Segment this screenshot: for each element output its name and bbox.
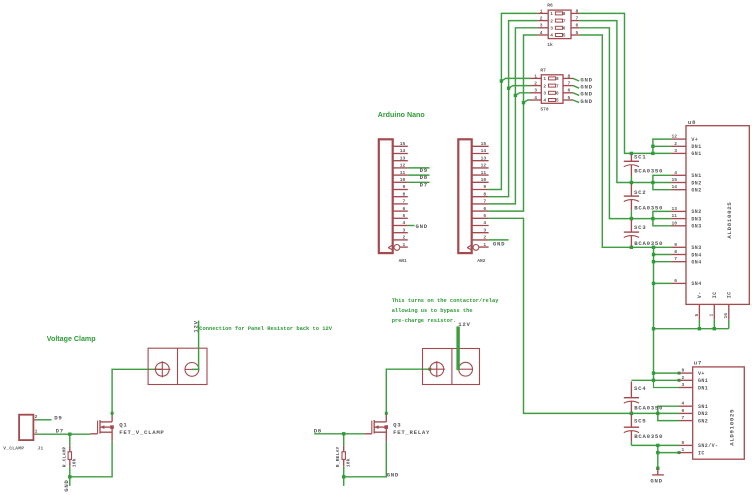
junction u7 DN2 feed [656,412,659,415]
svg-text:2: 2 [534,81,537,87]
svg-text:1: 1 [550,11,553,17]
wire net D8 to Q3 gate [314,433,365,435]
svg-text:SC3: SC3 [634,224,646,231]
wire Q1 drain to clamp terminal [112,369,162,413]
svg-text:GND: GND [416,223,428,230]
svg-text:V_CLAMP: V_CLAMP [3,445,24,451]
svg-text:7: 7 [403,199,406,205]
svg-text:BCA0350: BCA0350 [634,240,663,247]
svg-text:V+: V+ [698,371,705,377]
svg-text:7: 7 [682,415,685,421]
terminal block X1 clamp [148,348,207,384]
wire chain vertical u8 SN3 down to u7 V+/GN1/DN1 [653,247,655,380]
wire u8 DN1 row [653,145,671,147]
junction u8 DN1 branch [651,145,654,148]
svg-text:3: 3 [534,88,537,94]
svg-text:8: 8 [563,11,566,17]
svg-text:3: 3 [403,227,406,233]
svg-text:4: 4 [534,95,537,101]
wire Q3 drain to relay terminal [386,369,430,413]
svg-text:8: 8 [403,191,406,197]
wire GND from AN1 pin 4 [408,225,415,227]
wire GND stub Q1 [69,477,71,486]
svg-text:16: 16 [723,313,729,319]
svg-text:GN1: GN1 [698,378,708,384]
junction SC1 top [630,152,633,155]
svg-text:u7: u7 [694,359,702,366]
svg-text:10: 10 [481,177,487,183]
svg-text:15: 15 [481,141,487,147]
svg-text:Voltage Clamp: Voltage Clamp [47,335,96,343]
svg-text:1: 1 [403,242,406,248]
svg-text:DN1: DN1 [698,385,708,391]
wire net AN2.7-R7.3-R6.3 [489,28,538,204]
svg-text:12: 12 [481,163,487,169]
svg-text:7: 7 [568,81,571,87]
svg-text:8: 8 [682,368,685,374]
svg-text:GN3: GN3 [691,224,701,230]
svg-text:5: 5 [694,314,700,317]
wire u7 SN2/V- row from SC5 bottom [631,444,679,446]
svg-text:ALD810025: ALD810025 [726,202,733,239]
svg-text:5: 5 [682,440,685,446]
svg-text:1: 1 [543,76,546,82]
svg-text:GND: GND [493,241,505,248]
junction u8 V- drop [698,327,701,330]
junction SC4 bottom / SC5 top [630,412,633,415]
wire GND squiggle R7 pin 7 [573,86,579,89]
svg-text:7: 7 [563,18,566,24]
junction u7 IC row [656,451,659,454]
wire net AN2.6-R7.4-R6.4 [489,35,538,211]
svg-text:R_CLAMP: R_CLAMP [61,446,67,467]
svg-text:DN1: DN1 [691,144,701,150]
svg-text:GND: GND [580,98,592,105]
svg-text:10: 10 [400,177,406,183]
svg-text:11: 11 [671,213,677,219]
svg-text:15: 15 [400,141,406,147]
resistor R_CLAMP 10k [68,434,71,477]
wire GND squiggle R7 pin 5 [573,100,579,103]
junction SC2 bottom / SC3 top [630,217,633,220]
wire net AN2.8-R7.2-R6.2 [489,21,538,197]
wire branch to R7 pin 2 [509,86,531,89]
svg-text:IC: IC [712,291,718,298]
svg-text:1: 1 [534,73,537,79]
junction wire end at relay terminal [428,368,431,371]
svg-text:5: 5 [576,30,579,36]
svg-text:6: 6 [403,206,406,212]
junction chain at u7 GN1 [652,379,655,382]
svg-text:Q3: Q3 [393,422,401,429]
resistor network R7 [531,73,574,103]
svg-text:GND: GND [580,91,592,98]
transistor Q1 FET_V_CLAMP [90,413,113,441]
junction at R7 pin 2 branch [507,87,510,90]
svg-text:R7: R7 [540,67,546,73]
svg-text:allowing us to bypass the: allowing us to bypass the [392,308,473,314]
wire net D9 from AN1 pin 12 [408,167,430,169]
svg-text:2: 2 [674,141,677,147]
wire net R6.7 to u8 group2 (SN1/DN2/GN2) [580,21,672,183]
junction D7 at R_CLAMP [68,433,71,436]
junction u8 SN4 [652,282,655,285]
wire rail to u8 bottom pins V-/1/16 [654,328,729,330]
svg-text:7: 7 [674,256,677,262]
connector AN1 (Arduino Nano header JP1) [379,139,408,253]
svg-text:SN3: SN3 [691,245,701,251]
junction u7 SN2/V- branch [656,444,659,447]
svg-text:9: 9 [483,184,486,190]
junction chain at bottom rail [652,327,655,330]
svg-text:3: 3 [540,23,543,29]
junction wire end at u7 V+ pin [678,372,681,375]
svg-text:V+: V+ [691,137,698,143]
svg-text:11: 11 [400,170,406,176]
svg-text:DN2: DN2 [691,180,701,186]
svg-text:2: 2 [483,235,486,241]
svg-text:DN4: DN4 [691,252,701,258]
svg-text:SN2/V-: SN2/V- [698,443,718,449]
svg-text:D9: D9 [420,167,428,174]
svg-text:10k: 10k [72,458,78,467]
svg-text:V-: V- [697,291,703,298]
svg-text:SN4: SN4 [691,281,701,287]
svg-text:2: 2 [403,235,406,241]
wire u7 GN1 row from SC4 top [631,379,679,381]
svg-text:GND: GND [387,471,399,478]
svg-text:GND: GND [650,477,662,484]
svg-text:2: 2 [543,83,546,89]
svg-text:13: 13 [481,155,487,161]
wire branch u7 SN1/GN2 [658,406,679,420]
svg-text:GN2: GN2 [691,188,701,194]
IC u7 ALD910025 [679,367,744,459]
wire GND squiggle R7 pin 8 [573,78,579,81]
svg-text:1: 1 [709,314,715,317]
wire net D8 from AN1 pin 11 [408,174,430,176]
resistor R_RELAY 10k [342,434,345,477]
junction wire end at u7 GN1 pin [678,379,681,382]
svg-text:4: 4 [674,170,677,176]
junction at R7 pin 4 branch [522,101,525,104]
capacitor SC1 [624,155,639,183]
svg-text:5: 5 [563,33,566,39]
svg-text:8: 8 [483,191,486,197]
svg-text:GN4: GN4 [691,260,701,266]
ground GND below u7 [652,467,664,475]
svg-text:2: 2 [682,375,685,381]
svg-text:GND: GND [580,84,592,91]
svg-text:7: 7 [483,199,486,205]
svg-text:4: 4 [682,401,685,407]
svg-text:FET_V_CLAMP: FET_V_CLAMP [119,429,164,436]
wire branch to R7 pin 3 [515,93,530,96]
wire 12V into clamp terminal [192,321,199,370]
wire net D7 from J1 pin 1 to Q1 gate [37,433,91,435]
svg-text:7: 7 [576,16,579,22]
transistor Q3 FET_RELAY [365,413,388,441]
wire branch u8 V+ and DN1 [653,139,671,153]
wire net R6.8 to u8 group1 (V+/DN1/GN1) [580,13,672,153]
svg-text:8: 8 [576,8,579,14]
junction u8 DN4 [652,253,655,256]
svg-text:BCA0350: BCA0350 [634,205,663,212]
svg-text:ALD910025: ALD910025 [729,409,736,446]
wire GND stub Q3 [343,477,345,486]
svg-text:12: 12 [671,134,677,140]
svg-text:1k: 1k [547,42,553,48]
svg-text:3: 3 [543,91,546,97]
svg-text:This turns on the contactor/re: This turns on the contactor/relay [392,298,500,304]
junction SC3 bottom [630,246,633,249]
svg-text:1: 1 [682,447,685,453]
svg-text:12: 12 [400,163,406,169]
svg-text:BCA0350: BCA0350 [634,433,663,440]
svg-text:IC: IC [698,450,705,456]
svg-text:570: 570 [540,107,549,113]
svg-text:6: 6 [568,88,571,94]
svg-text:3: 3 [682,382,685,388]
svg-text:SN2: SN2 [691,209,701,215]
svg-text:5: 5 [403,213,406,219]
wire u7 V+ row [654,372,680,374]
svg-text:SC4: SC4 [634,385,646,392]
svg-text:D8: D8 [420,174,428,181]
svg-text:D7: D7 [56,427,64,434]
junction u8 GN4 [652,260,655,263]
svg-text:3: 3 [674,148,677,154]
svg-text:D7: D7 [420,181,428,188]
junction u8 DN2 feed [651,181,654,184]
junction u8 pin1 drop [713,327,716,330]
svg-text:pre-charge resistor.: pre-charge resistor. [392,318,457,324]
junction Q1 drain [111,412,114,415]
svg-text:14: 14 [400,148,406,154]
svg-text:GN2: GN2 [698,418,708,424]
svg-text:SC1: SC1 [634,154,646,161]
svg-text:6: 6 [674,278,677,284]
connector J1 V_CLAMP [19,415,36,440]
svg-text:6: 6 [576,23,579,29]
svg-text:DN3: DN3 [691,216,701,222]
wire net AN2.5 to u7 DN2 / SC4-SC5 tap [489,218,679,413]
wire Q1 source to GND node [70,442,112,477]
connector AN2 (Arduino Nano header JP2) [458,139,488,253]
IC u8 ALD810025 [671,126,749,320]
svg-text:Connection for Panel Resistor: Connection for Panel Resistor back to 12… [199,326,332,332]
svg-text:4: 4 [550,33,553,39]
svg-text:D9: D9 [54,414,62,421]
svg-text:FET_RELAY: FET_RELAY [393,429,430,436]
svg-text:2: 2 [550,18,553,24]
svg-text:2: 2 [540,16,543,22]
svg-text:7: 7 [556,83,559,89]
wire Q3 source to GND node [344,442,387,477]
svg-text:5: 5 [556,98,559,104]
wire 12V thick into relay terminal [456,326,459,370]
svg-text:3: 3 [483,227,486,233]
svg-text:Q1: Q1 [119,422,127,429]
svg-text:12V: 12V [458,321,470,328]
svg-text:SN1: SN1 [691,173,701,179]
svg-text:Arduino Nano: Arduino Nano [378,111,426,119]
capacitor SC2 [624,184,639,219]
wire drop to u7 IC pin1 and GND [657,445,659,468]
junction D8 at R_RELAY [342,432,345,435]
capacitor SC3 [624,220,639,248]
svg-text:4: 4 [540,30,543,36]
svg-text:10: 10 [671,220,677,226]
wire u8 GN4 row [654,261,672,263]
svg-text:4: 4 [543,98,546,104]
svg-text:DN2: DN2 [698,411,708,417]
wire GND from AN2 pin 2 [489,239,509,241]
svg-text:6: 6 [556,91,559,97]
junction at R7 pin 3 branch [514,94,517,97]
svg-text:GN1: GN1 [691,151,701,157]
svg-text:5: 5 [568,95,571,101]
svg-text:J1: J1 [38,445,44,451]
junction u8 DN3 feed [651,217,654,220]
svg-text:R_RELAY: R_RELAY [335,446,341,467]
wire u8 pin16 IC drop [728,320,730,329]
svg-text:SC5: SC5 [634,417,646,424]
svg-text:8: 8 [674,249,677,255]
capacitor SC5 [624,415,639,446]
svg-text:6: 6 [483,206,486,212]
svg-text:12V: 12V [193,320,200,332]
svg-text:11: 11 [481,170,487,176]
svg-text:SC2: SC2 [634,189,646,196]
svg-text:8: 8 [568,73,571,79]
svg-text:AN1: AN1 [399,258,407,264]
svg-text:8: 8 [556,76,559,82]
svg-text:15: 15 [671,177,677,183]
wire branch u8 SN1 [653,175,671,189]
wire net AN2.9-R7.1-R6.1 [489,13,538,189]
svg-text:4: 4 [483,220,486,226]
svg-text:6: 6 [563,26,566,32]
wire GND squiggle R7 pin 6 [573,93,579,96]
svg-text:3: 3 [550,26,553,32]
svg-text:13: 13 [400,155,406,161]
svg-text:u8: u8 [688,119,696,126]
junction GND node Q1 [68,475,71,478]
resistor network R6 [537,8,579,38]
wire u8 SN4 row [654,282,672,284]
junction Q3 drain [385,412,388,415]
svg-text:IC: IC [727,291,733,298]
capacitor SC4 [624,382,639,414]
svg-text:10k: 10k [346,458,352,467]
svg-text:BCA0350: BCA0350 [634,167,663,174]
wire net R6.5 to u8 group4 (SN3 row) [580,35,672,247]
junction GND node Q3 [342,475,345,478]
junction at R7 pin 1 branch [500,79,503,82]
wire u8 pin5 V- drop [698,320,700,329]
wire u8 DN4 row [654,254,672,256]
wire net R6.6 to u8 group3 (SN2/DN3/GN3) [580,28,672,219]
junction SC1 bottom / SC2 top [630,181,633,184]
svg-text:SN1: SN1 [698,404,708,410]
svg-text:6: 6 [682,408,685,414]
svg-text:4: 4 [403,220,406,226]
junction u8 GN1 feed [651,152,654,155]
svg-text:9: 9 [403,184,406,190]
svg-text:1: 1 [483,242,486,248]
wire u8 pin1 IC drop [713,320,715,329]
wire branch u8 SN2 [653,211,671,225]
svg-text:D8: D8 [314,427,322,434]
wire branch to R7 pin 1 [501,78,530,81]
svg-text:GND: GND [580,76,592,83]
svg-text:13: 13 [671,206,677,212]
svg-text:9: 9 [674,242,677,248]
svg-text:14: 14 [481,148,487,154]
junction wire end at u7 IC pin [678,451,681,454]
svg-text:R6: R6 [547,3,553,9]
junction chain at u7 V+ [652,371,655,374]
svg-text:AN2: AN2 [477,258,485,264]
wire net D7 from AN1 pin 10 [408,181,430,183]
svg-text:GND: GND [63,479,70,491]
svg-text:BCA0350: BCA0350 [634,405,663,412]
svg-text:5: 5 [483,213,486,219]
wire branch to R7 pin 4 [524,100,531,103]
svg-text:1: 1 [540,8,543,14]
junction chain at u8 SN3 [652,246,655,249]
wire net D9 at J1 pin 2 [37,419,52,421]
terminal block X2 relay [423,349,480,385]
svg-text:14: 14 [671,184,677,190]
wire u7 IC pin1 row [658,452,679,454]
